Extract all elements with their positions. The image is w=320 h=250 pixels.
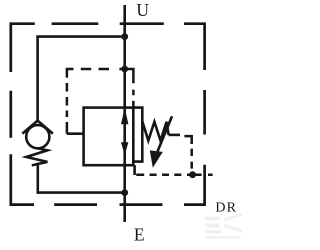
check valve seat [22,121,53,134]
enclosure top edge (long dashes) [11,24,205,72]
pilot line: spring chamber to drain gallery [184,136,191,169]
junction dot E-branch [121,189,128,196]
junction dot pilot tap [121,66,128,73]
adjustment arrow shaft [158,116,173,151]
adjustment arrow head [150,150,163,167]
main valve body [84,108,134,166]
pilot drain gallery (horizontal short dashes) [136,173,212,176]
relief valve line (top extension and right loop) [133,108,142,162]
spring tail line [169,134,180,137]
check valve spring [26,148,47,165]
svg-text:E: E [134,224,145,244]
flow arrow down head [121,142,128,155]
enclosure left edge [11,91,34,205]
wire: branch U to check valve [38,37,127,122]
flow arrow up head [121,108,128,125]
junction dot U-branch [121,33,128,40]
pilot connect to valve left side [67,132,84,135]
watermark logo [206,213,244,239]
pilot line: tap to left spring chamber (short dashes) [67,69,109,134]
main line U-E [123,5,126,222]
enclosure right edge [184,90,205,205]
svg-text:DR: DR [215,201,237,216]
enclosure bottom edge [54,203,162,206]
relief drain stub [133,165,136,175]
pilot line: tap down to valve top right [119,69,133,108]
relief spring [142,121,168,140]
wire: check valve return to E line [38,163,126,193]
check valve ball [26,125,49,148]
svg-text:U: U [136,0,149,20]
junction dot pilot drain [189,171,196,178]
